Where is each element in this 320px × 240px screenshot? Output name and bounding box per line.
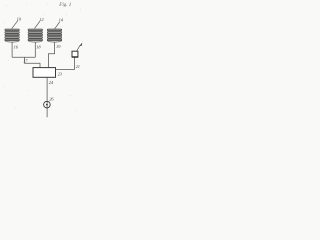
leader line to element 10 bbox=[12, 21, 18, 29]
coil stack 12 bbox=[28, 29, 43, 42]
wire step down to box bbox=[25, 57, 41, 68]
pump circle 26 bbox=[44, 101, 51, 108]
coil stack 10 bbox=[5, 29, 20, 42]
wire from coil 12 down bbox=[34, 42, 36, 57]
label 20 arrowhead bbox=[79, 43, 82, 47]
box unit 22 bbox=[33, 68, 56, 78]
main wire down from box bbox=[46, 77, 48, 117]
svg-text:21: 21 bbox=[76, 64, 80, 69]
square component 20 bbox=[72, 51, 78, 57]
leader line to label 20 bbox=[77, 45, 80, 50]
coil stack 14 bbox=[47, 29, 62, 42]
wire from box right to square 20 bbox=[56, 57, 75, 69]
svg-text:Fig. 1: Fig. 1 bbox=[58, 3, 71, 8]
wire from coil 14 down to box bbox=[48, 42, 54, 68]
leader line to element 12 bbox=[35, 21, 40, 28]
bus wire joining coils 10 and 12 bbox=[12, 56, 35, 58]
leader line to element 14 bbox=[55, 22, 60, 29]
wire from coil 10 down bbox=[11, 42, 13, 57]
speckle noise bbox=[3, 3, 81, 111]
background bbox=[0, 0, 87, 120]
